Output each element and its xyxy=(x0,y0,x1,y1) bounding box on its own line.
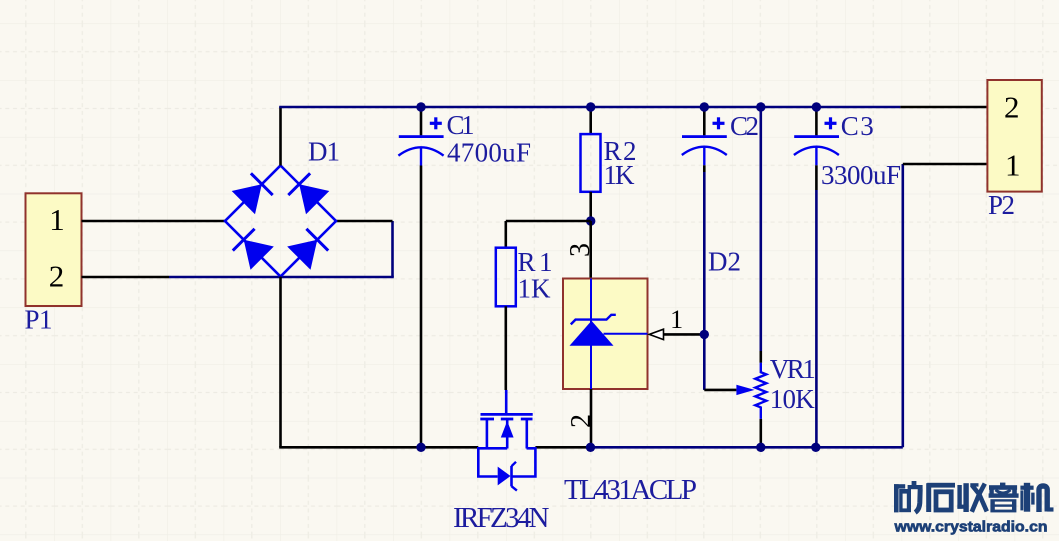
U1 zener bar with ticks xyxy=(571,315,616,325)
watermark char ji xyxy=(1020,490,1023,510)
Q1 drain leg xyxy=(486,419,489,449)
wire ref node down xyxy=(703,334,706,390)
capacitor C1 positive plate xyxy=(399,135,444,138)
potentiometer VR1 zigzag body xyxy=(755,363,766,419)
svg-text:2: 2 xyxy=(1004,90,1020,125)
watermark chinese characters xyxy=(894,481,1054,512)
wire R1 bottom to Q1 gate xyxy=(504,306,507,390)
capacitor C2 lower stub xyxy=(703,147,705,166)
wire P1 pin2 black stub xyxy=(82,276,170,279)
resistor R1 body xyxy=(496,248,516,307)
junction top rail at C1 xyxy=(416,102,425,111)
U1 pin 2 wire to - rail xyxy=(590,389,593,447)
svg-text:10K: 10K xyxy=(770,384,816,414)
D1 diode lower-right xyxy=(287,229,328,270)
VR1 bottom pin to - rail xyxy=(759,419,762,447)
svg-text:C3: C3 xyxy=(841,111,874,141)
capacitor C3 positive plate xyxy=(794,135,839,138)
svg-text:TL431ACLP: TL431ACLP xyxy=(564,474,697,506)
watermark char shi xyxy=(927,483,955,488)
U1 ref output wire xyxy=(604,333,648,335)
VR1 wiper arrow xyxy=(736,385,754,395)
Q1 body diode loop xyxy=(478,448,535,476)
watermark char yin xyxy=(1000,483,1005,486)
svg-text:IRFZ34N: IRFZ34N xyxy=(453,502,550,534)
watermark char kuang xyxy=(894,484,905,488)
bridge D1 diamond body xyxy=(225,166,336,277)
wire riser to P2 pin 1 (black) xyxy=(903,163,988,166)
resistor R2 body xyxy=(581,134,601,192)
U1 pin 1 wire xyxy=(664,333,705,336)
junction top rail at C2 net xyxy=(700,102,709,111)
Q1 gate bar xyxy=(481,413,533,416)
svg-text:3: 3 xyxy=(565,243,596,257)
wire R1 to junction xyxy=(506,220,591,223)
svg-text:1K: 1K xyxy=(604,160,636,190)
wire top rail down to VR1 (navy) xyxy=(759,107,762,351)
D1 diode upper-right xyxy=(288,173,329,214)
resistor R2 bottom pin xyxy=(589,192,592,221)
junction R2/R1/TL431 ref node xyxy=(586,216,595,225)
top + rail wire xyxy=(279,106,900,109)
capacitor C2 positive plate xyxy=(682,135,727,138)
wire C2 bottom black stub xyxy=(703,165,706,172)
svg-text:D1: D1 xyxy=(308,137,340,167)
junction - rail at VR1 xyxy=(756,443,765,452)
U1 internal cathode wire xyxy=(590,279,592,390)
svg-text:3300uF: 3300uF xyxy=(821,160,901,190)
svg-text:C2: C2 xyxy=(730,111,759,141)
svg-text:1: 1 xyxy=(49,202,65,237)
Q1 body leg with arrow xyxy=(501,419,514,449)
junction bottom rail at C1 xyxy=(416,443,425,452)
svg-text:4700uF: 4700uF xyxy=(447,138,531,168)
bottom - rail wire left (black) xyxy=(279,446,478,449)
connector P2 xyxy=(987,80,1041,192)
wire vertical up to D1 AC2 level xyxy=(391,221,394,277)
capacitor C2 top pin xyxy=(703,107,706,135)
junction top rail at R2 xyxy=(586,102,595,111)
resistor R2 top pin xyxy=(589,107,592,134)
junction top rail at C3 xyxy=(812,102,821,111)
svg-text:1K: 1K xyxy=(518,274,552,304)
svg-text:www.crystalradio.cn: www.crystalradio.cn xyxy=(893,520,1047,536)
svg-text:1: 1 xyxy=(670,305,683,334)
svg-text:2: 2 xyxy=(49,259,65,294)
junction - rail at U1 pin2 xyxy=(586,443,595,452)
capacitor C3 curved plate xyxy=(794,147,839,155)
svg-text:1: 1 xyxy=(1005,148,1021,183)
wire P1 pin1 to D1 AC1 (left vertex) xyxy=(82,220,226,223)
C3 plus sign xyxy=(825,117,837,129)
D1 diode upper-left xyxy=(232,173,273,214)
wire D1 right vertex pin to corner xyxy=(336,220,393,223)
wire C2 to ref node (navy, D2 net) xyxy=(703,172,706,334)
junction top rail at VR1 xyxy=(756,102,765,111)
wire riser to P2 pin1 xyxy=(901,164,904,447)
capacitor C3 lower stub xyxy=(815,147,817,166)
C1 bottom wire to - rail xyxy=(420,166,423,448)
capacitor C2 curved plate xyxy=(682,147,727,155)
svg-text:VR1: VR1 xyxy=(770,354,816,384)
resistor R1 top pin xyxy=(504,221,507,248)
VR1 top pin (black) xyxy=(759,351,762,363)
D1 bottom pin down to - rail xyxy=(279,277,282,448)
wire to VR1 wiper xyxy=(704,389,736,392)
Q1 channel segments xyxy=(480,418,532,421)
Q1 source leg xyxy=(525,419,528,449)
junction ref node at pin1 xyxy=(700,330,709,339)
C2 plus sign xyxy=(713,117,725,129)
wire C3 to - rail (navy) xyxy=(815,190,818,447)
capacitor C1 curved plate xyxy=(398,147,443,155)
watermark char shou xyxy=(957,485,961,509)
bottom - rail wire mid (black) xyxy=(535,446,590,449)
capacitor C3 top pin xyxy=(815,107,818,135)
U1 zener triangle xyxy=(570,321,614,346)
svg-text:R1: R1 xyxy=(518,247,553,277)
D1 diode lower-left xyxy=(233,229,274,270)
svg-text:D2: D2 xyxy=(708,247,741,277)
C1 plus sign xyxy=(430,117,442,129)
wire + rail to P2 pin 2 (black) xyxy=(900,106,987,109)
wire C3 black stub xyxy=(815,165,818,190)
svg-text:P2: P2 xyxy=(988,190,1015,220)
svg-text:2: 2 xyxy=(566,414,597,428)
D1 top pin to + rail xyxy=(279,107,282,166)
U1 TL431 body box xyxy=(563,279,648,390)
connector P1 xyxy=(26,193,82,306)
capacitor C1 top pin xyxy=(420,107,423,135)
svg-text:P1: P1 xyxy=(25,304,53,334)
bottom - rail wire right (navy) xyxy=(591,446,903,449)
transistor Q1 IRFZ34N gate pin xyxy=(505,390,508,413)
capacitor C1 lower stub xyxy=(420,147,422,166)
svg-text:C1: C1 xyxy=(447,110,475,140)
junction - rail at C3 xyxy=(811,443,820,452)
op-amp U1 TL431 pin 3 wire xyxy=(589,221,592,279)
wire P1 pin2 to below D1 (navy) xyxy=(169,276,394,279)
U1 pin 1 input arrowhead xyxy=(649,329,663,339)
Q1 body diode triangle and bar xyxy=(498,462,517,491)
